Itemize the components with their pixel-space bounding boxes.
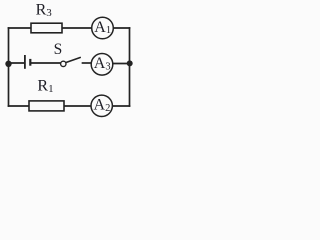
svg-text:S: S	[54, 41, 63, 58]
switch S	[61, 58, 81, 67]
resistor R3	[31, 23, 62, 33]
ammeter A1	[92, 17, 114, 39]
battery short plate	[29, 59, 31, 66]
switch lever	[66, 58, 80, 63]
wire bottom right segment	[112, 105, 129, 107]
wire right vertical	[129, 28, 131, 106]
ammeter A3	[91, 54, 113, 76]
battery long plate	[24, 55, 26, 69]
wire top right segment	[113, 27, 129, 29]
wire switch to A3	[83, 62, 92, 64]
node left junction dot	[5, 61, 11, 67]
wire middle left (dot to battery)	[9, 62, 25, 64]
ammeter A2	[91, 95, 112, 116]
resistor R1	[29, 101, 64, 111]
wire bottom left segment	[9, 105, 30, 107]
wire A3 to right dot	[113, 63, 130, 65]
battery cell	[25, 55, 30, 69]
switch pivot circle	[61, 61, 66, 66]
wire bottom middle segment	[64, 105, 91, 107]
wire left vertical	[8, 28, 10, 106]
wire top left segment	[9, 27, 32, 29]
node right junction dot	[127, 60, 133, 66]
wire top middle segment	[62, 27, 92, 29]
wire battery to switch	[31, 62, 61, 64]
